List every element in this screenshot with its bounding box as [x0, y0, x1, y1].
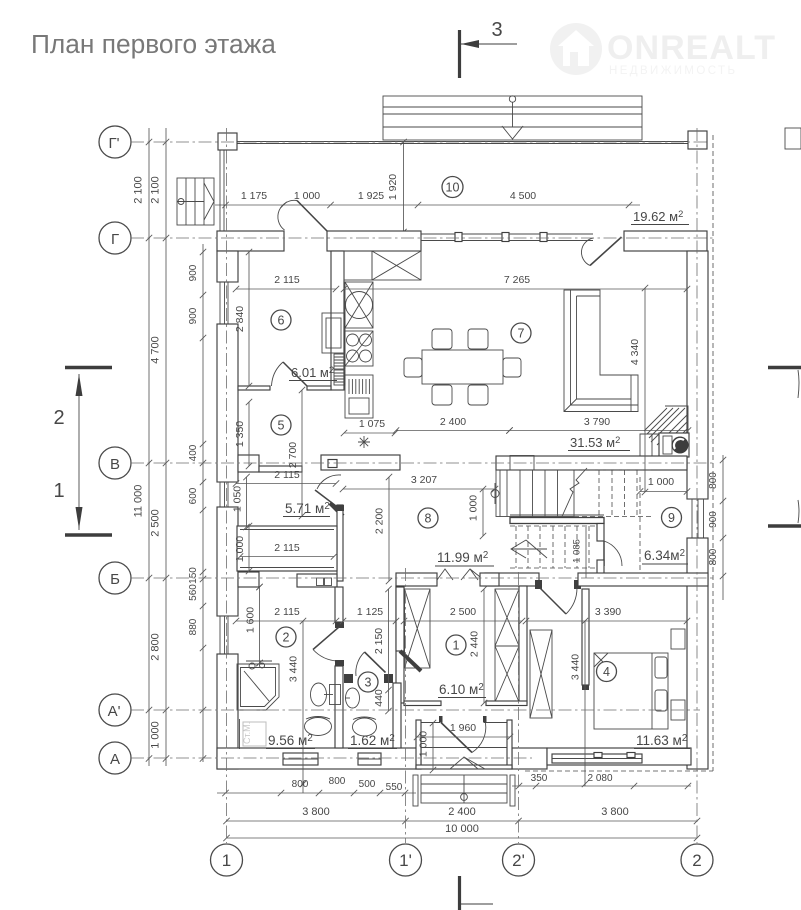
svg-text:2 400: 2 400: [440, 416, 466, 428]
section mark 3 bottom: [458, 876, 461, 910]
svg-text:3: 3: [365, 676, 372, 690]
svg-text:800: 800: [708, 472, 719, 489]
dim 1350 room5: [248, 402, 250, 466]
svg-text:11 000: 11 000: [133, 485, 145, 518]
svg-text:880: 880: [188, 618, 199, 635]
svg-text:2 500: 2 500: [150, 509, 162, 537]
bed room4: [594, 653, 668, 729]
svg-text:900: 900: [708, 511, 719, 528]
room1 west wall: [396, 586, 404, 703]
svg-text:1 085: 1 085: [572, 539, 583, 563]
svg-text:2: 2: [692, 851, 701, 870]
svg-text:В: В: [110, 456, 120, 473]
room1 east wall: [519, 586, 527, 703]
svg-text:2 700: 2 700: [287, 442, 299, 468]
svg-text:3 390: 3 390: [595, 606, 621, 618]
svg-text:2 115: 2 115: [274, 606, 300, 618]
opening chevrons corridor: [437, 569, 453, 580]
north wall Г left segment: [217, 231, 284, 251]
dim 2700 room5: [301, 390, 303, 516]
dim 1000 wardrobe: [248, 526, 250, 571]
svg-text:1 175: 1 175: [241, 190, 267, 202]
dim chain bottom windows left 800/800/500/550: [217, 792, 416, 794]
svg-text:550: 550: [386, 782, 403, 793]
stair flight solid steps: [496, 470, 574, 517]
svg-text:5.71 м2: 5.71 м2: [285, 501, 330, 516]
south wall window room2: [283, 753, 318, 765]
svg-text:1 000: 1 000: [150, 721, 162, 749]
dim chain 10000: [227, 837, 698, 839]
west outer wall upper: [217, 251, 238, 282]
dim 3390 room4: [526, 620, 687, 622]
dim 1085 stair door: [585, 527, 587, 578]
east outer wall lower: [687, 538, 708, 769]
axis line А horizontal: [131, 757, 532, 759]
shower room2: [237, 664, 279, 710]
svg-text:1 600: 1 600: [245, 607, 257, 633]
svg-text:2 080: 2 080: [587, 773, 612, 784]
dim chain left wall 900/900 and 400/600 150/560/880: [202, 244, 204, 762]
svg-text:1: 1: [222, 851, 231, 870]
section mark 3 top: [458, 30, 461, 78]
svg-text:11.63 м2: 11.63 м2: [636, 733, 687, 748]
section mark 2 right: [768, 366, 801, 369]
door room2: [313, 627, 339, 650]
svg-text:2 115: 2 115: [274, 469, 300, 481]
east wall window: [692, 499, 704, 538]
plant symbol: [358, 436, 370, 448]
south wall room4 window: [552, 754, 642, 763]
svg-text:2 440: 2 440: [469, 631, 481, 657]
stair start marker: [491, 490, 499, 498]
svg-text:Ст.М.: Ст.М.: [242, 722, 252, 744]
svg-text:Г': Г': [109, 135, 120, 152]
svg-text:6.34м2: 6.34м2: [644, 548, 685, 563]
stair direction arrow: [511, 548, 547, 550]
canopy drain arrow: [509, 96, 515, 102]
axis bubble Г': [99, 126, 131, 158]
svg-text:2 500: 2 500: [450, 606, 476, 618]
room3 chamfer door leaf: [365, 652, 386, 673]
svg-text:2 115: 2 115: [274, 542, 300, 554]
svg-text:10 000: 10 000: [445, 823, 479, 835]
dim 3207 hall8: [343, 488, 495, 490]
svg-text:800: 800: [292, 779, 309, 790]
north wall window band: [421, 233, 593, 235]
svg-text:4 500: 4 500: [510, 190, 536, 202]
Б wall pier left: [238, 572, 259, 587]
axis line Б horizontal: [131, 577, 716, 579]
svg-text:4: 4: [603, 665, 610, 679]
north wall Г middle segment: [327, 231, 421, 251]
room1 closet left: [405, 589, 431, 668]
understair closet wall: [597, 524, 604, 542]
dim 4340 living: [644, 288, 646, 492]
Б wall segment hall-left: [396, 573, 437, 586]
dim chain left inner 2100/4700/2500/2800/1000: [165, 128, 167, 766]
entrance steps left: [177, 178, 214, 225]
dim 1075 kitchen: [344, 432, 395, 434]
svg-text:2 200: 2 200: [374, 508, 386, 534]
wall hall-room2 vertical upper: [335, 587, 343, 622]
svg-text:1 000: 1 000: [234, 536, 246, 562]
dim 1000 porch: [432, 723, 434, 770]
svg-text:800: 800: [708, 548, 719, 565]
terrace corner post right: [688, 131, 707, 149]
roof overhang dashed line bottom: [525, 770, 713, 772]
axis bubble Г: [99, 222, 131, 254]
stair dashed boundary right: [639, 477, 641, 570]
pillow2 room4: [655, 690, 667, 711]
toilet room3: [353, 718, 377, 736]
axis bubble Б: [99, 562, 131, 594]
dim 1000 room9: [640, 491, 687, 493]
south wall window room3: [358, 753, 381, 765]
svg-text:НЕДВИЖИМОСТЬ: НЕДВИЖИМОСТЬ: [609, 65, 737, 77]
porch outdoor steps: [421, 775, 507, 803]
svg-text:ONREALT: ONREALT: [607, 29, 775, 67]
west outer wall mid1: [217, 324, 238, 482]
wall pier room5 south: [238, 455, 259, 472]
svg-text:1 000: 1 000: [648, 476, 674, 488]
svg-text:2 100: 2 100: [150, 176, 162, 204]
corridor 5.71 south boundary / wardrobe: [237, 526, 337, 571]
Б wall segment mid: [485, 573, 539, 586]
svg-text:А: А: [110, 751, 120, 768]
room circle 5: [271, 415, 291, 435]
svg-text:440: 440: [373, 689, 385, 707]
kitchen counter dishrack: [345, 375, 373, 418]
west wall window 3: [220, 616, 228, 654]
dim 1600 room2: [259, 587, 261, 663]
room1 closet right: [495, 589, 519, 646]
svg-text:560: 560: [188, 584, 199, 601]
nightstand room4 top: [671, 629, 685, 649]
svg-text:2 115: 2 115: [274, 274, 300, 286]
room3 chamfer wall right: [400, 651, 421, 671]
svg-text:3 440: 3 440: [570, 654, 582, 680]
terrace top edge line: [236, 141, 690, 143]
axis line 2 vertical: [696, 128, 698, 843]
room circle 8 hall: [418, 508, 438, 528]
roof overhang dashed line right: [712, 135, 714, 771]
sofa L-shaped room7: [564, 290, 638, 412]
room circle 4: [597, 662, 617, 682]
svg-text:4 700: 4 700: [150, 336, 162, 364]
svg-text:План первого этажа: План первого этажа: [31, 29, 276, 59]
terrace corner post left: [218, 133, 237, 150]
svg-text:350: 350: [531, 773, 548, 784]
room3 corridor east wall: [396, 587, 404, 651]
washbasin room3 small: [346, 688, 360, 708]
dim chain bottom right 350/2080: [512, 785, 691, 787]
porch top edge with door opening: [418, 722, 440, 724]
svg-text:7 265: 7 265: [504, 274, 530, 286]
svg-text:10: 10: [446, 181, 460, 195]
svg-text:900: 900: [188, 307, 199, 324]
stair break line: [562, 468, 587, 517]
stair half wall: [510, 518, 604, 524]
svg-text:600: 600: [188, 487, 199, 504]
svg-text:900: 900: [188, 264, 199, 281]
axis bubble А': [99, 694, 131, 726]
svg-text:400: 400: [188, 444, 199, 461]
fireplace hatched corner: [640, 406, 688, 456]
west wall window 2: [220, 482, 228, 507]
kitchen sink circle box: [345, 282, 373, 328]
room1 entry door to porch: [441, 723, 472, 753]
west outer wall mid2: [217, 507, 238, 616]
west wall window 1: [220, 282, 228, 324]
svg-text:1 960: 1 960: [450, 722, 476, 734]
svg-text:500: 500: [359, 779, 376, 790]
section mark 2 left: [65, 366, 112, 369]
room circle 3: [358, 672, 378, 692]
axis bubble 1 bottom: [211, 844, 243, 876]
kitchen vent shaft X-box: [372, 251, 421, 280]
nightstand room4 bottom: [671, 700, 685, 720]
svg-text:1 050: 1 050: [232, 486, 244, 512]
axis bubble 2 bottom: [681, 844, 713, 876]
svg-text:1: 1: [53, 480, 64, 502]
axis line 2' vertical: [518, 572, 520, 843]
dim chain left outer 2100/11000: [148, 128, 150, 766]
axis line В horizontal: [131, 462, 716, 464]
pillow1 room4: [655, 657, 667, 678]
axis bubble В: [99, 447, 131, 479]
svg-text:3: 3: [491, 19, 502, 41]
svg-text:3 207: 3 207: [411, 474, 437, 486]
svg-text:Б: Б: [110, 571, 120, 588]
boiler cabinet on wall: [322, 313, 345, 353]
room circle 7 living: [511, 323, 531, 343]
svg-text:9: 9: [668, 511, 675, 525]
south wall segment right of porch: [512, 748, 547, 769]
hatched strip small appliances: [334, 354, 345, 369]
wall room2-room3 vertical lower: [335, 666, 343, 748]
dim 2115 room2: [236, 620, 336, 622]
svg-text:800: 800: [329, 776, 346, 787]
svg-text:1 125: 1 125: [357, 606, 383, 618]
terrace left edge: [220, 150, 224, 231]
axis line 1' vertical: [405, 568, 407, 843]
axis line Г horizontal: [131, 237, 716, 239]
terrace door top right: [590, 237, 622, 266]
dim 2150 room3: [388, 589, 390, 690]
svg-text:3 800: 3 800: [302, 806, 330, 818]
svg-text:1': 1': [399, 851, 412, 870]
axis bubble 2' bottom: [503, 844, 535, 876]
room circle 6: [271, 310, 291, 330]
south wall bathrooms segment: [217, 748, 421, 769]
svg-text:2 800: 2 800: [150, 633, 162, 661]
dim 3440 room2: [302, 621, 304, 793]
kitchen shelf box: [344, 251, 372, 280]
entrance door opening in Г wall: [297, 201, 327, 232]
stair dashed upper flight: [574, 470, 652, 517]
room1 south wall: [404, 701, 441, 706]
svg-text:1 350: 1 350: [234, 421, 246, 447]
dim 2840 room6: [248, 252, 250, 386]
room circle 9 stairs: [662, 508, 682, 528]
svg-text:3 800: 3 800: [601, 806, 629, 818]
dim 2115 corridor571: [236, 483, 336, 485]
stair landing rect: [510, 456, 534, 471]
svg-text:8: 8: [425, 512, 432, 526]
axis line А' horizontal: [131, 709, 700, 711]
svg-text:3 440: 3 440: [288, 656, 300, 682]
toilet room2: [330, 685, 341, 705]
room circle 1: [446, 635, 466, 655]
Б wall stair side piece: [480, 573, 499, 586]
svg-text:9.56 м2: 9.56 м2: [268, 733, 313, 748]
north wall Г right segment: [624, 231, 707, 251]
svg-text:150: 150: [188, 567, 199, 584]
small box top right edge: [785, 128, 801, 149]
dim 1050 corridor: [246, 477, 248, 527]
svg-text:31.53 м2: 31.53 м2: [570, 435, 620, 450]
dim 2115 room6: [236, 288, 336, 290]
wall room6 east partition: [331, 251, 344, 390]
room3 east wall lower: [393, 683, 401, 748]
section mark 1 left: [65, 533, 112, 536]
dim 1920 vertical terrace: [403, 142, 405, 232]
east outer wall upper: [687, 251, 708, 499]
dim 2200 hall: [388, 477, 390, 581]
dim chain 3800/2400/3800: [227, 820, 698, 822]
dim 2115 wardrobe: [240, 556, 334, 558]
west outer wall lower: [217, 654, 238, 769]
svg-text:А': А': [108, 703, 121, 720]
carport canopy top: [383, 96, 642, 140]
dining table room7: [422, 350, 503, 384]
kitchen south wall band: [321, 455, 400, 470]
svg-text:2: 2: [53, 407, 64, 429]
svg-text:6: 6: [278, 314, 285, 328]
dim 1125 wc corridor: [343, 620, 396, 622]
dim chain right 800/900/800: [722, 455, 724, 600]
svg-text:2 400: 2 400: [448, 806, 476, 818]
room circle 10 terrace: [442, 177, 463, 198]
svg-text:2 150: 2 150: [373, 628, 385, 654]
understair closet door: [604, 541, 622, 566]
dim 2400 living: [396, 430, 510, 432]
svg-text:1 000: 1 000: [418, 731, 430, 757]
washing machine room2: [243, 722, 266, 746]
svg-text:2: 2: [283, 631, 290, 645]
room4 west wall: [582, 589, 589, 685]
corridor door below kitchen: [317, 475, 341, 489]
porch walls: [416, 720, 421, 769]
svg-text:11.99 м2: 11.99 м2: [437, 550, 488, 565]
dim 3790 living: [510, 430, 689, 432]
wall room6/room5 divider with door: [238, 386, 270, 390]
closet corridor wardrobe: [530, 630, 552, 718]
door to closet corridor: [535, 580, 542, 589]
svg-text:5: 5: [278, 419, 285, 433]
porch V mark: [450, 757, 485, 769]
axis bubble 1' bottom: [390, 844, 422, 876]
dim 1960 porch: [417, 736, 510, 738]
axis line 1 vertical: [226, 128, 228, 843]
kitchen stove box: [345, 331, 373, 366]
washbasin room2: [305, 718, 332, 736]
room circle 2: [276, 627, 296, 647]
svg-text:1 925: 1 925: [358, 190, 384, 202]
corridor chamfer wall: [330, 503, 343, 516]
Б wall segment right: [578, 573, 708, 586]
south wall room4 segment: [547, 748, 691, 765]
wall В living-stairs: [496, 456, 687, 470]
dim 1000 stairs entry: [482, 489, 484, 536]
svg-text:2': 2': [512, 851, 525, 870]
Б wall stub mid with switches: [297, 574, 337, 587]
svg-text:1: 1: [453, 639, 460, 653]
svg-text:1 075: 1 075: [359, 418, 385, 430]
dim 3440 room4: [584, 621, 586, 786]
dim 2500 room1: [404, 620, 522, 622]
svg-text:1 000: 1 000: [468, 495, 480, 521]
svg-text:3 790: 3 790: [584, 416, 610, 428]
wall room5 south segment: [259, 466, 302, 472]
room4 doorway gap jamb: [582, 685, 589, 690]
section mark 1 right: [768, 524, 801, 527]
porch threshold line: [421, 747, 507, 749]
svg-text:6.10 м2: 6.10 м2: [439, 682, 484, 697]
dim 7265 living: [344, 288, 687, 290]
axis line Г' horizontal: [131, 141, 710, 143]
svg-text:4 340: 4 340: [629, 339, 641, 365]
svg-text:1 920: 1 920: [387, 174, 399, 200]
dim chain top 1175/1000/1925/4500: [215, 204, 640, 206]
door room6-room5: [283, 362, 307, 386]
svg-text:19.62 м2: 19.62 м2: [633, 209, 683, 224]
svg-text:1.62 м2: 1.62 м2: [350, 733, 395, 748]
svg-text:2 840: 2 840: [234, 306, 246, 332]
understair dashed flight: [510, 526, 596, 568]
svg-text:6.01 м2: 6.01 м2: [291, 365, 334, 380]
corridor east wall: [337, 505, 343, 581]
axis bubble А: [99, 742, 131, 774]
watermark logo ONREALT: [550, 23, 775, 77]
stove box with black circle: [659, 433, 689, 457]
dim 2440 room1: [483, 589, 485, 703]
svg-text:Г: Г: [111, 231, 119, 248]
svg-text:7: 7: [518, 327, 525, 341]
svg-text:2 100: 2 100: [133, 176, 145, 204]
